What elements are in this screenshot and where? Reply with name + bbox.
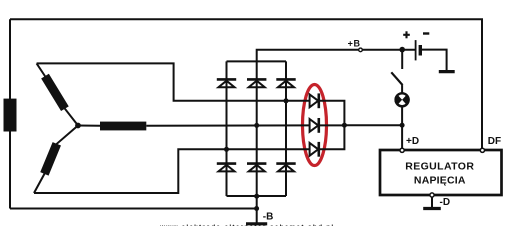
battery positive plate [415, 40, 417, 60]
wire rectifier leg 3 [285, 61, 287, 196]
wire switch upper contact [401, 50, 403, 69]
node phase2-leg2 junction [254, 123, 259, 128]
svg-text:www.elektroda-alternator-schem: www.elektroda-alternator-schemat.obd.pl [159, 224, 334, 226]
ground battery symbol [439, 70, 455, 73]
node star point [75, 123, 81, 129]
terminal -D [430, 193, 434, 197]
stator winding W1 coil bar [45, 76, 65, 109]
wire +D run to lamp [344, 124, 402, 126]
wire left vertical to field winding [9, 19, 11, 208]
diode D2 top leg2 [247, 79, 266, 87]
node aux bus +D junction [342, 123, 347, 128]
node bridge ground junction [254, 194, 259, 199]
terminal +D [400, 148, 404, 152]
stator winding W2 coil bar [44, 144, 56, 174]
diode D5 bottom leg2 [247, 164, 266, 172]
svg-text:+B: +B [348, 39, 361, 49]
battery plus sign [403, 31, 410, 38]
svg-text:-B: -B [263, 212, 274, 223]
node phase1-leg3 junction [284, 98, 289, 103]
svg-text:NAPIĘCIA: NAPIĘCIA [414, 175, 466, 187]
rotor field winding [4, 99, 17, 132]
lamp charge indicator [395, 92, 410, 107]
stator winding W3 lead [78, 125, 100, 127]
svg-text:REGULATOR: REGULATOR [405, 161, 474, 173]
wire bottom ground rail [10, 208, 257, 210]
wire phase 2 to bridge [146, 124, 309, 126]
wire top field supply from DF [10, 19, 482, 150]
wire rectifier leg 2 [256, 61, 258, 196]
stator winding W3 coil bar [100, 122, 146, 131]
switch ignition blade [391, 72, 402, 85]
wire battery to ground [422, 50, 447, 71]
wire rectifier negative bus [227, 195, 287, 197]
terminal +B [359, 48, 363, 52]
battery negative plate [419, 45, 422, 56]
wire ground stem -B [256, 196, 258, 224]
stator winding W2 lead [34, 126, 78, 194]
auxiliary diode D9 [310, 142, 319, 157]
wire +B riser from bridge [257, 50, 416, 62]
ground -B symbol [246, 222, 267, 225]
svg-text:+D: +D [406, 136, 419, 147]
ground -D symbol [423, 207, 441, 210]
node phase3-leg1 junction [224, 147, 229, 152]
svg-text:DF: DF [488, 136, 501, 147]
regulator box U1 [380, 150, 502, 195]
node battery junction [399, 47, 405, 53]
stator winding W1 lead [37, 63, 78, 125]
diode D1 top leg1 [217, 79, 236, 87]
auxiliary diode D8 [310, 118, 319, 133]
highlight ellipse around auxiliary diodes [303, 85, 327, 166]
wire rectifier leg 1 [226, 61, 228, 196]
diode D6 bottom leg3 [276, 164, 295, 172]
wire phase 3 to bridge [34, 149, 310, 193]
terminal DF [480, 148, 484, 152]
auxiliary diode D7 [310, 93, 319, 108]
svg-text:-D: -D [440, 197, 451, 208]
wire auxiliary diode 2 cathode [319, 124, 345, 126]
wire lamp to +D terminal [401, 85, 403, 148]
wire auxiliary diode output bus [319, 101, 345, 150]
node lamp +D junction [400, 123, 405, 128]
diode D3 top leg3 [276, 79, 295, 87]
battery minus sign [423, 32, 429, 34]
wire DF riser to regulator [481, 19, 483, 148]
diode D4 bottom leg1 [217, 164, 236, 172]
node ground rail junction [254, 206, 259, 211]
wire phase 1 to bridge [37, 63, 310, 100]
wire -D ground stem [431, 197, 433, 207]
wire rectifier positive bus [227, 60, 287, 62]
